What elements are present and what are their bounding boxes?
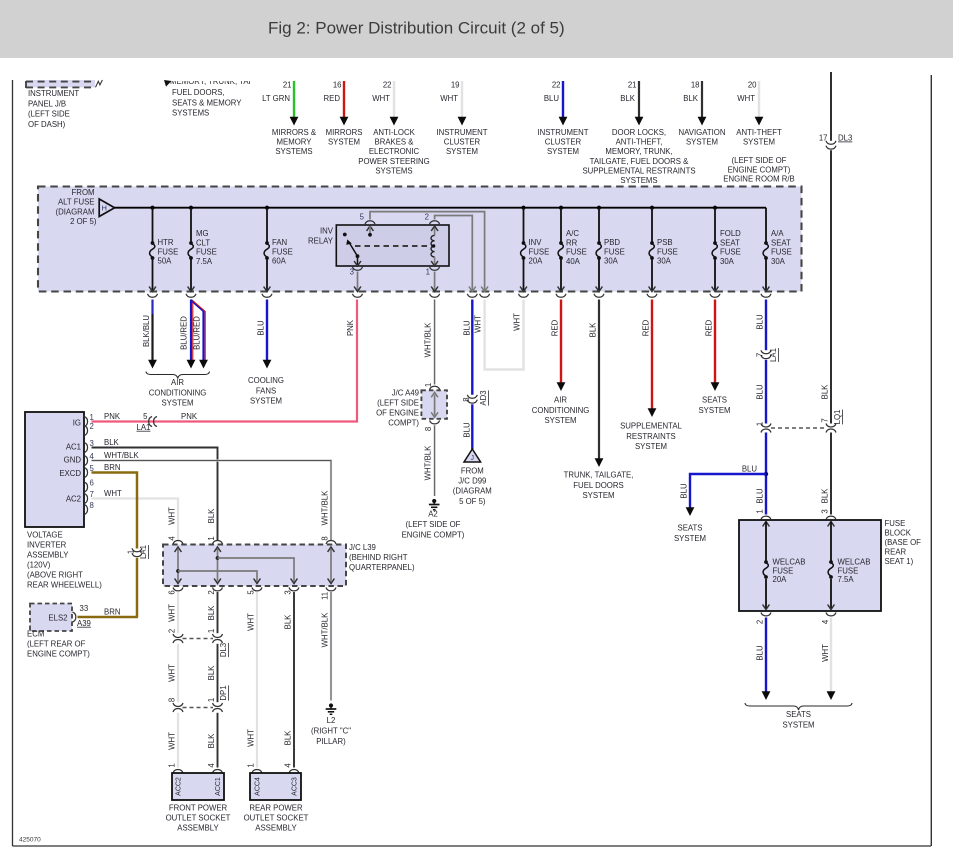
svg-text:FOLD: FOLD: [720, 229, 741, 238]
connector at R/B edge x=191: [186, 294, 196, 297]
node bus tap x=652: [650, 206, 654, 210]
wire LT GRN #21 to mirrors & memory system: [262, 81, 317, 157]
svg-text:BLK/BLU: BLK/BLU: [142, 315, 151, 347]
svg-text:ASSEMBLY: ASSEMBLY: [27, 551, 69, 560]
voltage inverter pin 8: [84, 501, 94, 515]
fuse FOLD SEAT fuse 30A: [712, 208, 742, 292]
wire WHT/BLK J/C L39 pin 11 to ground L2: [321, 592, 332, 701]
relay mechanical link (dashed): [355, 245, 432, 247]
svg-text:SEAT 1): SEAT 1): [885, 557, 914, 566]
svg-text:SYSTEM: SYSTEM: [446, 147, 478, 156]
svg-text:8: 8: [90, 501, 94, 510]
wire relay pin2 riser to coil supply leg: [435, 216, 476, 292]
svg-text:BLU/RED: BLU/RED: [193, 316, 202, 350]
voltage inverter pin 7: [84, 490, 94, 504]
svg-text:FUSE: FUSE: [885, 519, 906, 528]
svg-text:(120V): (120V): [27, 561, 51, 570]
node bus tap x=152.5: [150, 206, 154, 210]
svg-text:LA1: LA1: [137, 423, 151, 432]
connector at R/B edge x=152.5: [148, 294, 158, 297]
wire WHT/BLK relay coil ground leg: [424, 300, 435, 385]
svg-text:SEATS: SEATS: [678, 524, 703, 533]
svg-text:A/C: A/C: [566, 229, 579, 238]
svg-text:ACC4: ACC4: [255, 777, 262, 796]
svg-text:LA1: LA1: [139, 545, 148, 559]
svg-text:INSTRUMENT: INSTRUMENT: [28, 89, 79, 98]
svg-text:5 OF 5): 5 OF 5): [459, 497, 486, 506]
svg-text:FUSE: FUSE: [604, 247, 625, 256]
voltage inverter assembly box: [25, 412, 102, 590]
node bus tap x=599: [597, 206, 601, 210]
svg-text:6: 6: [90, 479, 94, 488]
connector at R/B edge x=523.5: [519, 294, 529, 297]
svg-text:FUSE: FUSE: [566, 248, 587, 257]
svg-text:(BASE OF: (BASE OF: [885, 538, 922, 547]
svg-text:CLUSTER: CLUSTER: [545, 138, 582, 147]
svg-text:8: 8: [424, 427, 433, 431]
svg-text:WELCAB: WELCAB: [838, 558, 871, 567]
svg-text:FAN: FAN: [272, 238, 287, 247]
svg-text:BLU: BLU: [756, 384, 765, 400]
wire WHT #19 to instrument cluster 1 system: [436, 81, 487, 157]
svg-text:FUSE: FUSE: [272, 247, 293, 256]
svg-text:FUSE: FUSE: [771, 248, 792, 257]
svg-text:WHT: WHT: [440, 94, 458, 103]
svg-text:FANS: FANS: [256, 386, 276, 395]
svg-text:33: 33: [80, 604, 89, 613]
svg-text:(ABOVE RIGHT: (ABOVE RIGHT: [27, 571, 83, 580]
svg-text:BLU: BLU: [756, 645, 765, 661]
svg-text:LA1: LA1: [769, 348, 778, 362]
relay pin 5 (switch feed): [360, 213, 375, 237]
svg-text:CLT: CLT: [196, 238, 210, 247]
svg-text:SYSTEM: SYSTEM: [674, 534, 706, 543]
svg-text:CONDITIONING: CONDITIONING: [149, 388, 207, 397]
fuse FAN fuse 60A: [264, 208, 293, 292]
svg-text:RED: RED: [551, 319, 560, 336]
svg-text:CONDITIONING: CONDITIONING: [532, 406, 590, 415]
svg-text:WHT: WHT: [247, 613, 256, 631]
svg-text:MIRRORS: MIRRORS: [326, 128, 363, 137]
svg-text:RR: RR: [566, 238, 578, 247]
svg-text:40A: 40A: [566, 257, 581, 266]
svg-text:FROM: FROM: [72, 188, 95, 197]
svg-text:1: 1: [756, 509, 765, 513]
voltage inverter pin 4: [84, 452, 94, 466]
svg-text:FROM: FROM: [461, 467, 484, 476]
svg-text:4: 4: [821, 619, 830, 624]
wire BLK inverter AC1 to J/C L39 pin 1: [92, 438, 218, 541]
engine room R/B dashed box: [38, 187, 802, 292]
svg-text:AC1: AC1: [66, 443, 81, 452]
svg-text:PBD: PBD: [604, 238, 620, 247]
svg-text:1: 1: [426, 268, 430, 277]
wire WHT J/C L39 pin 5 to rear outlet: [247, 590, 258, 768]
svg-text:POWER STEERING: POWER STEERING: [358, 157, 429, 166]
svg-text:1: 1: [756, 422, 765, 426]
svg-text:GND: GND: [64, 456, 82, 465]
svg-text:INVERTER: INVERTER: [27, 541, 67, 550]
wire RED #16 to mirrors system system: [324, 81, 363, 147]
engine room R/B location note: [723, 156, 794, 184]
svg-text:21: 21: [283, 81, 292, 90]
wire BLU fuse block pin 2 to seats: [756, 618, 771, 701]
fuse MG CLT fuse 7.5A: [188, 208, 217, 292]
svg-text:2: 2: [90, 422, 94, 431]
svg-text:RELAY: RELAY: [308, 237, 334, 246]
svg-text:WHT: WHT: [372, 94, 390, 103]
svg-text:OUTLET SOCKET: OUTLET SOCKET: [244, 814, 309, 823]
rear power outlet socket assembly: [244, 769, 309, 832]
node bus tap x=191: [189, 206, 193, 210]
fuse A/C RR fuse 40A: [558, 208, 587, 292]
svg-text:DL3: DL3: [838, 134, 852, 143]
svg-text:(BEHIND RIGHT: (BEHIND RIGHT: [349, 553, 408, 562]
voltage inverter pin 3: [84, 439, 94, 453]
svg-text:BLK: BLK: [207, 733, 216, 749]
svg-text:LT GRN: LT GRN: [262, 94, 290, 103]
dashed connector links DL3 / DP1: [183, 639, 214, 708]
svg-text:DL3: DL3: [219, 643, 228, 657]
svg-text:ENGINE COMPT): ENGINE COMPT): [728, 165, 791, 174]
fuse PBD fuse 30A: [596, 208, 625, 292]
node bus tap x=715: [713, 206, 717, 210]
svg-text:1: 1: [90, 413, 94, 422]
wire BLU relay coil supply from J/C D99: [463, 300, 473, 395]
svg-text:COOLING: COOLING: [248, 376, 284, 385]
ECM connector ELS2: [27, 604, 91, 659]
svg-text:WHT/BLK: WHT/BLK: [321, 612, 330, 647]
svg-text:8: 8: [321, 536, 330, 540]
svg-text:WHT/BLK: WHT/BLK: [424, 445, 433, 480]
svg-text:J/C A49: J/C A49: [392, 389, 419, 398]
svg-text:5: 5: [143, 412, 148, 421]
svg-text:EXCD: EXCD: [59, 469, 81, 478]
svg-text:60A: 60A: [272, 257, 287, 266]
svg-text:4: 4: [168, 536, 177, 541]
svg-text:SUPPLEMENTAL: SUPPLEMENTAL: [620, 422, 682, 431]
connector at R/B edge x=434.6: [430, 294, 440, 297]
svg-text:SYSTEM: SYSTEM: [582, 491, 614, 500]
svg-text:4: 4: [284, 763, 293, 768]
svg-text:ALT FUSE: ALT FUSE: [58, 198, 95, 207]
wire WHT loop INV fuse to relay pin5: [474, 300, 524, 370]
svg-text:REAR WHEELWELL): REAR WHEELWELL): [27, 581, 102, 590]
fuse PSB fuse 30A: [649, 208, 678, 292]
svg-text:3: 3: [821, 509, 830, 513]
svg-text:BLK: BLK: [683, 94, 699, 103]
svg-text:BLU: BLU: [463, 422, 472, 438]
svg-text:SYSTEM: SYSTEM: [161, 399, 193, 408]
wire BLK #21 to door locks group system: [582, 81, 695, 186]
svg-text:AD3: AD3: [479, 390, 488, 405]
relay pin 1 (coil -): [426, 267, 440, 292]
J/C L39 through wire x=178: [173, 540, 183, 590]
svg-text:TAILGATE, FUEL DOORS &: TAILGATE, FUEL DOORS &: [590, 157, 689, 166]
svg-text:FUSE: FUSE: [657, 247, 678, 256]
fuse block bottom connectors: [761, 612, 836, 615]
svg-text:8: 8: [462, 397, 471, 401]
partial text block: fuel doors, seats & memory systems (cut off): [164, 77, 256, 117]
svg-text:4: 4: [207, 763, 216, 768]
svg-text:PNK: PNK: [346, 319, 355, 336]
svg-text:FUSE: FUSE: [158, 247, 179, 256]
relay INV RELAY: [308, 225, 449, 266]
svg-text:OF DASH): OF DASH): [28, 120, 66, 129]
svg-text:BRN: BRN: [104, 608, 120, 617]
svg-text:FUSE: FUSE: [196, 248, 217, 257]
svg-text:AIR: AIR: [171, 378, 184, 387]
front power outlet socket assembly: [166, 769, 231, 832]
svg-text:INV: INV: [320, 227, 334, 236]
main bus wire from ALT fuse: [115, 207, 766, 209]
node bus tap x=267: [265, 206, 269, 210]
svg-text:7: 7: [756, 353, 765, 357]
svg-text:VOLTAGE: VOLTAGE: [27, 531, 63, 540]
wire RED to seats system: [705, 300, 720, 392]
wire WHT/BLK to ground A2: [424, 425, 435, 496]
drawing number 425070: [19, 837, 41, 844]
wire BLK J/C L39 pin 2 to front outlet: [207, 590, 218, 633]
svg-text:BLU: BLU: [756, 488, 765, 504]
junction block J/C L39: [163, 543, 415, 586]
connector 1 / LQ1 mating pair with dashed link: [756, 410, 843, 433]
svg-text:SEATS: SEATS: [786, 710, 811, 719]
svg-text:ENGINE COMPT): ENGINE COMPT): [402, 531, 465, 540]
svg-text:SYSTEM: SYSTEM: [698, 406, 730, 415]
wire BLU #22 to instrument cluster 2 system: [537, 81, 588, 157]
svg-text:ACC3: ACC3: [292, 777, 299, 796]
cooling fans system label: [248, 376, 284, 406]
wire WHT #20 to anti-theft system: [736, 81, 782, 147]
connector 8 AD3 on BLU wire: [462, 390, 488, 405]
svg-text:WHT: WHT: [168, 604, 177, 622]
svg-text:ACC1: ACC1: [215, 777, 222, 796]
connector at R/B edge x=267: [262, 294, 272, 297]
connector 7 LA1 on BLU wire: [756, 348, 779, 362]
svg-text:2: 2: [207, 590, 216, 594]
svg-text:BRN: BRN: [104, 463, 120, 472]
node bus tap x=561: [559, 206, 563, 210]
connector at R/B edge x=715: [710, 294, 720, 297]
svg-text:SEATS: SEATS: [702, 396, 727, 405]
fuse A/A SEAT fuse 30A: [763, 208, 792, 292]
connector 2 DL3 on WHT: [168, 629, 184, 643]
svg-text:L2: L2: [327, 716, 336, 725]
svg-text:19: 19: [451, 81, 460, 90]
svg-text:FRONT POWER: FRONT POWER: [169, 804, 228, 813]
svg-text:WHT/BLK: WHT/BLK: [424, 322, 433, 357]
svg-text:SYSTEMS: SYSTEMS: [275, 147, 312, 156]
svg-text:SYSTEM: SYSTEM: [782, 721, 814, 730]
svg-text:20A: 20A: [773, 575, 788, 584]
svg-text:FUSE: FUSE: [720, 248, 741, 257]
svg-text:WHT: WHT: [168, 732, 177, 750]
svg-text:18: 18: [691, 81, 700, 90]
connector at R/B edge x=599: [594, 294, 604, 297]
svg-text:ELS2: ELS2: [48, 614, 67, 623]
svg-text:SYSTEMS: SYSTEMS: [620, 176, 657, 185]
svg-text:30A: 30A: [720, 257, 735, 266]
wire WHT J/C L39 pin 6 to front outlet: [168, 590, 179, 633]
fuse HTR fuse 50A: [149, 208, 178, 292]
svg-text:WELCAB: WELCAB: [773, 558, 806, 567]
svg-text:INSTRUMENT: INSTRUMENT: [537, 128, 588, 137]
svg-text:PNK: PNK: [181, 412, 198, 421]
svg-text:MEMORY, TRUNK,: MEMORY, TRUNK,: [605, 147, 672, 156]
svg-text:SYSTEMS: SYSTEMS: [375, 166, 412, 175]
svg-text:7: 7: [821, 418, 830, 422]
svg-text:20: 20: [748, 81, 757, 90]
svg-text:ELECTRONIC: ELECTRONIC: [369, 147, 420, 156]
svg-text:(DIAGRAM: (DIAGRAM: [56, 207, 95, 216]
svg-text:1: 1: [168, 763, 177, 767]
svg-text:SYSTEM: SYSTEM: [547, 147, 579, 156]
svg-text:OUTLET SOCKET: OUTLET SOCKET: [166, 814, 231, 823]
wire RED to air conditioning system: [551, 300, 566, 392]
svg-text:7.5A: 7.5A: [838, 575, 855, 584]
svg-text:30A: 30A: [657, 257, 672, 266]
svg-text:FUEL DOORS,: FUEL DOORS,: [172, 88, 225, 97]
svg-text:WHT: WHT: [168, 507, 177, 525]
svg-text:RED: RED: [642, 319, 651, 336]
svg-text:FUSE: FUSE: [773, 566, 794, 575]
svg-text:H: H: [102, 204, 107, 213]
svg-text:BRAKES &: BRAKES &: [375, 138, 415, 147]
svg-text:TRUNK, TAILGATE,: TRUNK, TAILGATE,: [564, 471, 634, 480]
svg-text:BLU: BLU: [680, 483, 689, 499]
voltage inverter pin 5: [84, 464, 94, 478]
connector 17 DL3: [819, 134, 853, 150]
svg-text:BLK: BLK: [284, 614, 293, 630]
svg-text:COMPT): COMPT): [388, 419, 419, 428]
svg-text:SUPPLEMENTAL RESTRAINTS: SUPPLEMENTAL RESTRAINTS: [582, 166, 695, 175]
svg-text:50A: 50A: [158, 257, 173, 266]
svg-text:5: 5: [247, 590, 256, 595]
svg-text:MIRRORS &: MIRRORS &: [272, 128, 317, 137]
voltage inverter pin 2: [84, 422, 94, 436]
svg-text:16: 16: [333, 81, 342, 90]
svg-text:J: J: [471, 455, 475, 462]
svg-text:17: 17: [819, 134, 828, 143]
wire BLK J/C L39 pin 3 to rear outlet: [284, 590, 295, 767]
svg-text:NAVIGATION: NAVIGATION: [679, 128, 726, 137]
connector at R/B edge x=484.6: [480, 294, 490, 297]
svg-text:2: 2: [756, 620, 765, 624]
connector 1 DL3 on BLK: [207, 629, 228, 657]
svg-text:8: 8: [168, 698, 177, 702]
svg-text:BLU: BLU: [742, 465, 758, 474]
svg-text:Fig 2: Power Distribution Circ: Fig 2: Power Distribution Circuit (2 of …: [268, 19, 565, 38]
J/C L39 through wire x=331: [326, 540, 336, 590]
svg-text:30A: 30A: [604, 257, 619, 266]
J/C L39 tap to pin 5: [176, 569, 262, 591]
svg-text:FUSE: FUSE: [529, 247, 550, 256]
wire BLU branch to seats system: [680, 474, 767, 516]
svg-text:FUEL DOORS: FUEL DOORS: [573, 481, 623, 490]
connector 1 DP1 on BLK: [207, 685, 228, 712]
connector at R/B edge x=357.5: [353, 294, 363, 297]
svg-text:1: 1: [127, 550, 136, 554]
fuse WELCAB 20A: [761, 516, 805, 609]
J/C L39 through wire x=217.5: [213, 540, 223, 590]
wire BLU lower segment: [463, 404, 473, 449]
svg-text:BLK: BLK: [207, 605, 216, 621]
svg-text:RESTRAINTS: RESTRAINTS: [626, 432, 675, 441]
voltage inverter pin 6: [84, 479, 94, 493]
svg-text:SEATS & MEMORY: SEATS & MEMORY: [172, 98, 242, 107]
wire BLU/RED pair to air conditioning: [180, 300, 208, 369]
svg-text:WHT: WHT: [821, 644, 830, 662]
svg-text:ENGINE COMPT): ENGINE COMPT): [27, 650, 90, 659]
svg-text:PNK: PNK: [104, 412, 121, 421]
svg-text:WHT: WHT: [474, 315, 483, 333]
svg-text:20A: 20A: [529, 257, 544, 266]
svg-text:ANTI-LOCK: ANTI-LOCK: [373, 128, 415, 137]
svg-text:6: 6: [168, 590, 177, 594]
svg-text:ANTI-THEFT: ANTI-THEFT: [736, 128, 782, 137]
svg-text:A2: A2: [428, 510, 438, 519]
svg-text:11: 11: [321, 592, 330, 600]
svg-text:BLK: BLK: [620, 94, 636, 103]
svg-text:(LEFT SIDE: (LEFT SIDE: [377, 399, 419, 408]
svg-text:RED: RED: [324, 94, 341, 103]
seats system label under fuse block: [745, 703, 852, 730]
connector at R/B edge x=652: [647, 294, 657, 297]
wire WHT #22 to anti-lock brakes system: [358, 81, 429, 176]
svg-text:SYSTEM: SYSTEM: [328, 138, 360, 147]
svg-text:ANTI-THEFT,: ANTI-THEFT,: [616, 138, 663, 147]
svg-text:BLOCK: BLOCK: [885, 529, 912, 538]
svg-text:RED: RED: [705, 319, 714, 336]
svg-text:SYSTEMS: SYSTEMS: [172, 109, 209, 118]
wire BLK DL3 rail: [830, 72, 832, 141]
svg-text:WHT/BLK: WHT/BLK: [104, 451, 139, 460]
svg-text:BLU: BLU: [544, 94, 560, 103]
from J/C D99 triangle J: [453, 449, 492, 506]
wire BRN from ELS2: [78, 608, 139, 618]
svg-text:1: 1: [207, 629, 216, 633]
svg-text:425070: 425070: [19, 837, 41, 844]
svg-text:3: 3: [284, 590, 293, 594]
connector 1 LA1 on BRN wire: [127, 545, 149, 559]
relay switch blade: [343, 233, 360, 259]
fuse block (base of rear seat 1): [739, 519, 921, 611]
instrument panel J/B (partial box, cut off at top): [26, 80, 102, 129]
svg-text:(LEFT SIDE OF: (LEFT SIDE OF: [406, 520, 461, 529]
ground L2: [311, 703, 351, 746]
svg-text:REAR POWER: REAR POWER: [249, 804, 303, 813]
svg-text:(DIAGRAM: (DIAGRAM: [453, 487, 492, 496]
svg-text:MEMORY: MEMORY: [277, 138, 313, 147]
svg-text:5: 5: [360, 213, 365, 222]
connector at R/B edge x=561: [556, 294, 566, 297]
svg-text:ASSEMBLY: ASSEMBLY: [255, 824, 297, 833]
svg-text:WHT/BLK: WHT/BLK: [321, 490, 330, 525]
svg-text:SEAT: SEAT: [720, 238, 740, 247]
svg-text:(LEFT SIDE OF: (LEFT SIDE OF: [732, 156, 787, 165]
node bus tap x=523.5: [521, 206, 525, 210]
svg-text:2: 2: [168, 629, 177, 633]
svg-text:MG: MG: [196, 229, 209, 238]
svg-text:BLU: BLU: [756, 314, 765, 330]
wire BLK/BLU to air conditioning: [142, 300, 157, 369]
svg-text:CLUSTER: CLUSTER: [444, 138, 481, 147]
svg-text:SYSTEM: SYSTEM: [743, 138, 775, 147]
svg-text:BLK: BLK: [589, 322, 598, 338]
svg-text:PANEL J/B: PANEL J/B: [28, 99, 66, 108]
svg-text:(RIGHT "C": (RIGHT "C": [311, 727, 351, 736]
